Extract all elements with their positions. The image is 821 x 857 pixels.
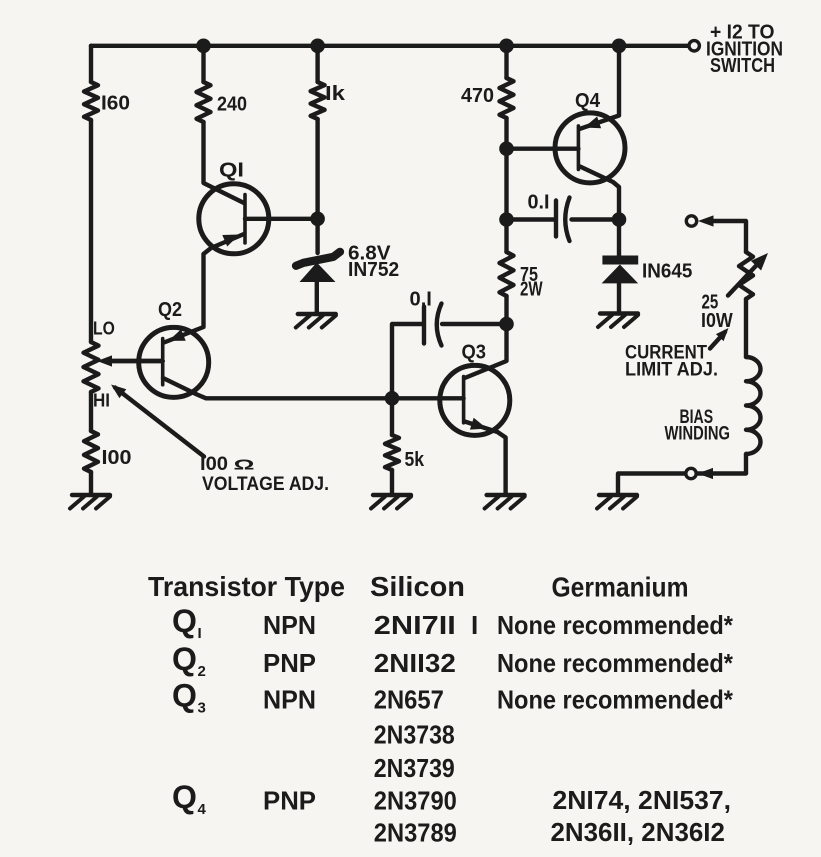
svg-text:5k: 5k <box>405 449 425 471</box>
svg-text:2NII32: 2NII32 <box>374 648 456 678</box>
svg-text:2N3739: 2N3739 <box>374 753 455 783</box>
svg-text:None recommended*: None recommended* <box>497 610 734 640</box>
svg-text:2N36II, 2N36I2: 2N36II, 2N36I2 <box>551 817 725 847</box>
svg-text:Q2: Q2 <box>158 299 182 321</box>
svg-text:VOLTAGE ADJ.: VOLTAGE ADJ. <box>202 474 329 495</box>
svg-text:PNP: PNP <box>263 786 316 816</box>
svg-text:I00: I00 <box>102 447 132 469</box>
svg-text:NPN: NPN <box>263 610 316 640</box>
svg-text:PNP: PNP <box>263 648 316 678</box>
svg-text:NPN: NPN <box>263 685 316 715</box>
svg-text:I0W: I0W <box>701 310 733 332</box>
svg-text:470: 470 <box>461 85 494 107</box>
svg-text:IN645: IN645 <box>642 261 692 283</box>
svg-text:Transistor Type: Transistor Type <box>148 571 345 602</box>
svg-text:IN752: IN752 <box>348 259 399 281</box>
svg-text:0.I: 0.I <box>410 289 432 311</box>
svg-text:2N3738: 2N3738 <box>374 720 455 750</box>
svg-text:Germanium: Germanium <box>552 572 689 603</box>
svg-text:2N3790: 2N3790 <box>374 786 457 816</box>
svg-text:2W: 2W <box>520 279 543 301</box>
svg-text:Q: Q <box>172 678 197 714</box>
svg-text:None recommended*: None recommended* <box>497 648 734 678</box>
svg-text:0.I: 0.I <box>528 192 550 214</box>
svg-text:Q: Q <box>172 779 197 815</box>
svg-text:I: I <box>471 610 478 640</box>
svg-text:Q3: Q3 <box>462 342 487 364</box>
svg-text:Q: Q <box>172 641 197 677</box>
svg-text:QI: QI <box>219 160 244 182</box>
svg-text:Q4: Q4 <box>575 90 601 112</box>
svg-text:3: 3 <box>198 700 206 717</box>
svg-text:LO: LO <box>93 319 115 339</box>
svg-text:WINDING: WINDING <box>665 424 730 445</box>
svg-text:Ik: Ik <box>325 83 346 105</box>
svg-text:I: I <box>198 625 202 642</box>
svg-text:2NI7II: 2NI7II <box>374 610 456 640</box>
svg-text:SWITCH: SWITCH <box>710 55 775 77</box>
svg-text:240: 240 <box>217 94 247 116</box>
svg-text:LIMIT ADJ.: LIMIT ADJ. <box>625 360 718 381</box>
svg-text:2: 2 <box>198 663 206 680</box>
svg-text:2N657: 2N657 <box>374 685 444 715</box>
svg-text:None recommended*: None recommended* <box>497 685 734 715</box>
svg-text:HI: HI <box>93 391 110 411</box>
svg-text:I60: I60 <box>101 93 130 115</box>
svg-text:2NI74, 2NI537,: 2NI74, 2NI537, <box>553 785 732 815</box>
svg-text:Silicon: Silicon <box>370 571 465 602</box>
svg-text:Q: Q <box>172 603 197 639</box>
svg-text:2N3789: 2N3789 <box>374 818 457 848</box>
svg-text:4: 4 <box>198 801 207 818</box>
svg-text:I00: I00 <box>200 454 228 475</box>
svg-text:Ω: Ω <box>234 457 255 474</box>
